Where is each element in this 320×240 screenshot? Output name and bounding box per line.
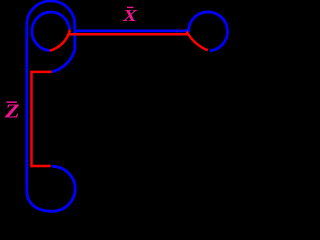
blue inner circle (top-left hole) bbox=[32, 12, 70, 51]
red arc of X operator on right circle bbox=[187, 32, 208, 51]
wire: blue horizontal connector bbox=[75, 29, 190, 32]
red Z operator polyline bbox=[32, 72, 52, 166]
svg-text:Z: Z bbox=[4, 101, 20, 123]
blue right circle (top-right hole) bbox=[188, 12, 227, 51]
red arc of X operator on left circle bbox=[50, 30, 70, 51]
svg-text:X: X bbox=[122, 6, 138, 25]
label Zbar bbox=[4, 101, 20, 123]
label Xbar bbox=[122, 6, 138, 25]
blue outer defect curve (arch + stem + bottom loop) bbox=[27, 1, 75, 211]
wire: red horizontal X operator line bbox=[68, 33, 189, 36]
